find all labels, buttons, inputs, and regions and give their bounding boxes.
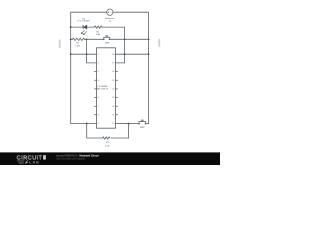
svg-text:3: 3 (98, 71, 99, 73)
IC U1 pin numbers (98, 54, 115, 125)
svg-text:15: 15 (112, 80, 114, 82)
node bottom right/R3 (128, 123, 130, 125)
svg-text:SW1: SW1 (105, 43, 110, 45)
svg-text:10: 10 (112, 123, 114, 125)
svg-text:LTL-307EE: LTL-307EE (77, 21, 90, 23)
svg-text:11: 11 (112, 115, 114, 117)
battery V1 (107, 9, 113, 15)
wire top rail (71, 12, 149, 39)
wire LED row (71, 27, 125, 39)
svg-text:SW2: SW2 (140, 127, 145, 129)
node right rail/pinR1 row (148, 53, 150, 55)
scrollbar tick (158, 39, 160, 47)
wire pin L1 net (71, 53, 97, 55)
svg-text:18: 18 (112, 54, 114, 56)
svg-text:5v: 5v (109, 20, 112, 22)
junction dots (70, 26, 150, 124)
IC U1 DIP body (97, 48, 116, 128)
logo glare (43, 155, 46, 160)
node branch/R2 row (86, 38, 88, 40)
svg-text:6: 6 (98, 97, 99, 99)
node left/LED (70, 26, 72, 28)
LED D1 (83, 25, 87, 29)
wire bottom left to R3 (87, 124, 103, 139)
wire branch to pin R2 (115, 39, 124, 63)
resistor R1 (94, 26, 102, 28)
node left/R2 (70, 38, 72, 40)
svg-text:http://circuitlab.com/c6gq3hx: http://circuitlab.com/c6gq3hx (56, 157, 86, 160)
svg-text:17: 17 (112, 63, 114, 65)
IC U1 name (97, 85, 108, 91)
wire R2/SW1 row (71, 38, 149, 40)
svg-text:1 kΩ: 1 kΩ (105, 145, 110, 147)
svg-text:LAB: LAB (29, 160, 40, 164)
node R1 branch/pinR1 row (124, 53, 126, 55)
svg-text:9: 9 (98, 123, 99, 125)
svg-text:account789034123 / Unnamed Cir: account789034123 / Unnamed Circuit (56, 154, 99, 157)
node bottom left/R3 (86, 123, 88, 125)
LED D1 light arrows (81, 30, 87, 35)
switch SW2 (138, 120, 146, 123)
wire pin R1 net (115, 53, 148, 55)
IC U1 pin stubs (94, 72, 118, 115)
node right rail/SW1 row (148, 38, 150, 40)
node left/pinL1 (70, 53, 72, 55)
svg-text:1: 1 (98, 54, 99, 56)
wire left rail (71, 27, 97, 123)
wire bottom right row (115, 123, 139, 125)
svg-text:1 kΩ: 1 kΩ (75, 45, 80, 47)
footer account text (56, 154, 99, 160)
node SW2 terminals (138, 123, 140, 125)
battery V1 plus/minus marks (108, 11, 112, 13)
svg-text:R1: R1 (96, 31, 100, 33)
svg-text:MCU DIP-18: MCU DIP-18 (97, 88, 108, 90)
logo CIRCUIT (17, 156, 43, 165)
svg-text:12: 12 (112, 106, 114, 108)
wire R3 right to bottom net (111, 124, 128, 138)
switch SW1 (103, 36, 110, 39)
resistor R3 (103, 137, 110, 139)
wire right rail (146, 39, 149, 123)
svg-text:16: 16 (112, 71, 114, 73)
component labels (75, 17, 145, 147)
svg-text:1 kΩ: 1 kΩ (96, 34, 101, 36)
node SW1 terminals (103, 38, 105, 40)
node branch/pinL1 row (86, 53, 88, 55)
svg-text:R3: R3 (106, 142, 110, 144)
wire branch to pin L2 (87, 39, 97, 63)
svg-text:2: 2 (98, 63, 99, 65)
svg-text:8: 8 (98, 115, 99, 117)
svg-text:R2: R2 (76, 43, 80, 45)
svg-text:13: 13 (112, 97, 114, 99)
svg-text:7: 7 (98, 106, 99, 108)
footer bar (0, 152, 220, 165)
node R1 branch/SW1 row (124, 38, 126, 40)
svg-text:4: 4 (98, 80, 99, 82)
resistor R2 (73, 38, 85, 40)
scrollbar tick left (59, 39, 61, 48)
svg-text:14: 14 (112, 89, 114, 91)
